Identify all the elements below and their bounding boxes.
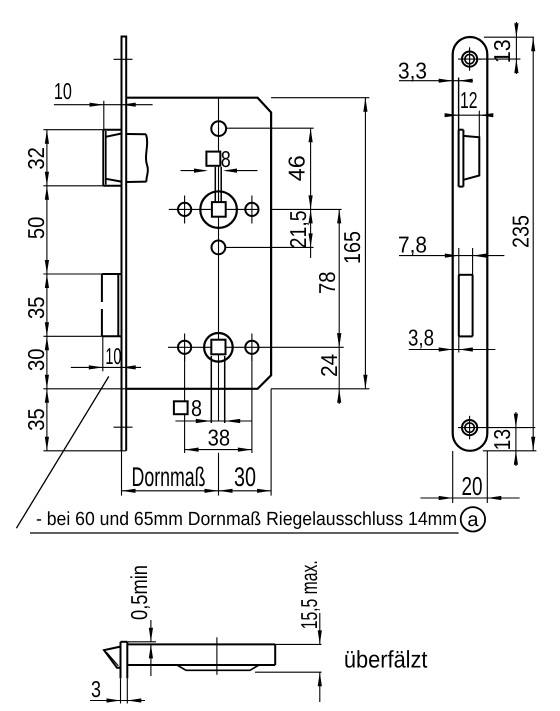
slot lines between top square and nut <box>215 167 221 202</box>
dimension 24 <box>316 333 342 404</box>
section: rebate lip wedge <box>104 647 120 668</box>
dimension 30 (backset to edge) <box>219 462 272 493</box>
left chain dimension line <box>46 130 48 451</box>
svg-text:46: 46 <box>284 155 310 181</box>
faceplate (front view, 3.3mm strip) <box>121 37 128 451</box>
right fixing hole (lower) <box>245 334 258 362</box>
svg-text:21,5: 21,5 <box>285 210 311 248</box>
dimension 46 <box>284 128 313 209</box>
dimension 13 top <box>478 22 534 74</box>
dimension 20 <box>420 451 519 503</box>
svg-text:10: 10 <box>105 343 121 369</box>
dimension 10 (top, latch protrusion) <box>54 78 153 130</box>
section: faceplate bar <box>121 642 128 679</box>
bottom screw hole <box>458 416 535 440</box>
svg-text:15,5 max.: 15,5 max. <box>296 560 322 629</box>
svg-text:- bei 60 und 65mm Dornmaß Rieg: - bei 60 und 65mm Dornmaß Riegelausschlu… <box>36 509 457 530</box>
svg-text:165: 165 <box>339 231 365 264</box>
svg-text:8: 8 <box>191 395 202 421</box>
lower small hole below follower <box>212 241 226 255</box>
dimension 3,3 <box>398 58 473 84</box>
dimension 12 <box>445 87 494 138</box>
svg-text:3: 3 <box>91 676 101 702</box>
follower square (white fill) <box>212 202 226 217</box>
svg-text:8: 8 <box>221 146 231 172</box>
dimension 3 (plate thickness) <box>90 676 145 704</box>
svg-text:50: 50 <box>23 217 49 240</box>
dimension 38 <box>185 425 252 452</box>
leader line to footnote <box>16 376 108 528</box>
lower follower row centerline <box>168 346 344 348</box>
svg-text:12: 12 <box>460 87 478 113</box>
faceplate break tick top <box>114 58 133 60</box>
svg-text:35: 35 <box>23 297 49 320</box>
dimension 8 (top square): line and arrows <box>181 169 258 173</box>
section: lock case strip <box>127 644 275 665</box>
vertical centerline of lock <box>218 98 220 422</box>
faceplate break tick bottom <box>114 426 133 428</box>
svg-text:30: 30 <box>234 462 256 492</box>
svg-text:20: 20 <box>462 471 483 501</box>
svg-text:13: 13 <box>489 39 515 63</box>
plate inner edge / latch cutout left extension <box>458 78 460 130</box>
extension line from lower small hole (21,5) <box>226 246 314 248</box>
svg-text:0,5min: 0,5min <box>126 565 152 620</box>
extension line follower center right <box>271 208 342 210</box>
svg-text:Dornmaß: Dornmaß <box>132 462 206 492</box>
left fixing hole (upper) <box>178 196 191 224</box>
svg-text:10: 10 <box>54 78 72 104</box>
svg-text:235: 235 <box>507 215 533 248</box>
deadbolt cutout in faceplate <box>459 275 473 337</box>
svg-text:24: 24 <box>316 354 342 377</box>
extension lines for Dornmass row <box>122 389 272 496</box>
dimension 3,8 <box>408 325 495 353</box>
dimension 0,5min <box>126 565 156 676</box>
svg-text:32: 32 <box>23 147 49 170</box>
faceplate side view outline (rounded ends) <box>453 37 488 451</box>
dimension 21,5 <box>285 209 313 258</box>
dimension Dornmass <box>122 462 272 493</box>
extension line body bottom right <box>271 388 369 390</box>
latch bolt (front view, left of faceplate) <box>103 130 121 186</box>
dimension 10 (bottom, deadbolt protrusion) <box>71 336 141 371</box>
right fixing hole (upper) <box>245 196 258 224</box>
extension line lower follower right <box>343 346 345 348</box>
svg-text:3,8: 3,8 <box>408 325 434 351</box>
extension lines left chain <box>43 130 126 451</box>
arrows left chain <box>45 130 49 451</box>
svg-text:überfälzt: überfälzt <box>344 647 428 674</box>
lock body outline with chamfered right corners <box>126 98 271 389</box>
footnote underline <box>30 532 459 534</box>
svg-text:a: a <box>467 509 479 531</box>
extension line body top right <box>271 97 369 99</box>
section: notch under strip <box>177 665 259 670</box>
extension line top hole to 46 <box>227 127 314 129</box>
left fixing hole (lower) <box>178 334 191 362</box>
svg-text:3,3: 3,3 <box>398 58 427 84</box>
lower 8mm square symbol <box>174 401 188 414</box>
horizontal centerline through follower row <box>169 208 259 210</box>
follower big circle <box>200 191 237 228</box>
latch bolt head side profile (trapezoid) <box>463 136 479 180</box>
top screw hole <box>458 47 482 71</box>
dimension 78 <box>314 209 341 347</box>
dimension 13 bottom <box>483 412 537 466</box>
dimension 165 <box>339 98 368 389</box>
svg-text:7,8: 7,8 <box>398 232 427 258</box>
svg-text:78: 78 <box>314 271 340 294</box>
extension lines below lower square (8mm) <box>211 356 224 423</box>
top hole <box>211 121 226 136</box>
dimension 15,5 max <box>255 560 322 702</box>
top 8mm square <box>206 152 220 166</box>
svg-text:13: 13 <box>489 429 515 451</box>
dimension 8 (lower square) <box>175 419 252 423</box>
centerline lower segment <box>218 453 220 496</box>
circled a marker <box>461 507 485 531</box>
svg-text:30: 30 <box>23 349 49 372</box>
lower follower circle <box>204 333 233 362</box>
extension lines for 38 dimension <box>185 356 252 453</box>
dimension 235 <box>507 37 535 451</box>
svg-text:35: 35 <box>23 408 49 431</box>
dimension 7,8 with extension stubs <box>398 232 504 277</box>
latch cutout narrow slot <box>459 130 464 187</box>
latch bolt protruding right of faceplate with break line <box>126 134 148 182</box>
svg-text:38: 38 <box>208 425 231 451</box>
deadbolt (front view) <box>102 274 122 336</box>
section centre tick <box>216 637 218 675</box>
lower follower square (white fill) <box>211 340 225 355</box>
